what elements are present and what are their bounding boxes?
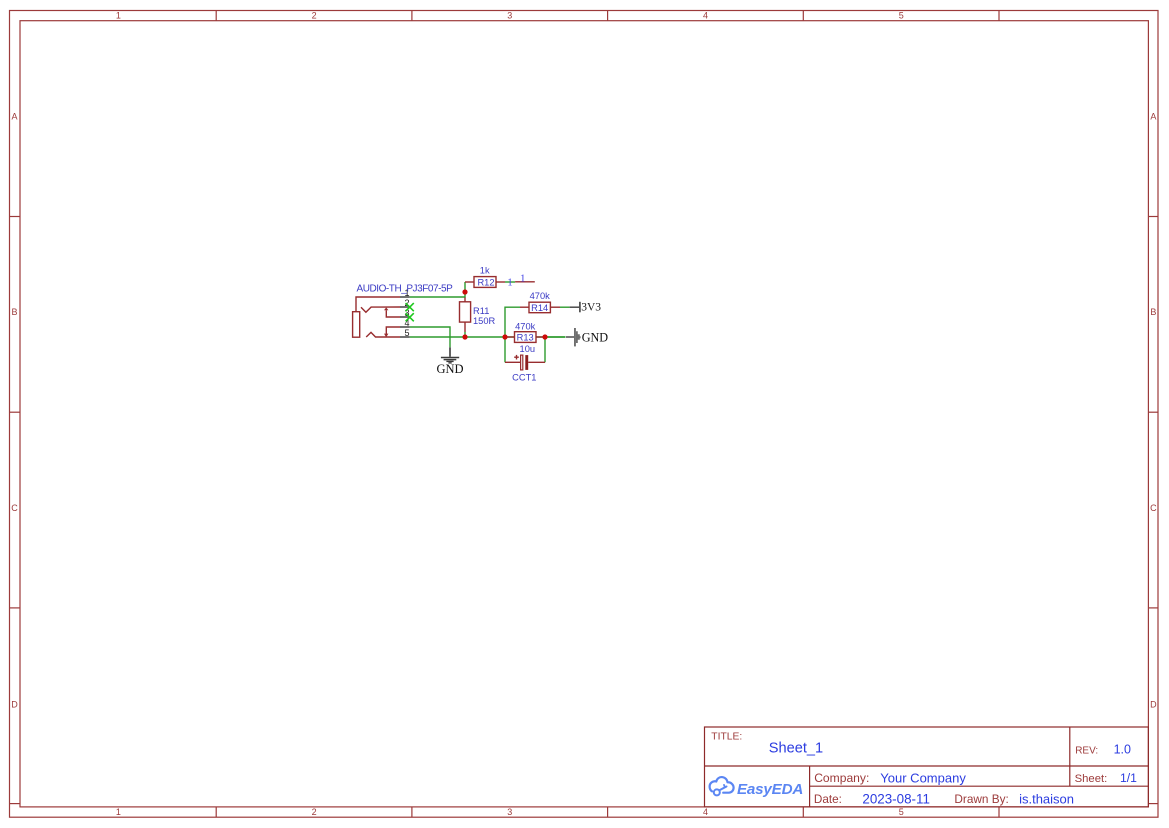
- svg-text:1/1: 1/1: [1120, 771, 1137, 785]
- svg-text:B: B: [1150, 307, 1156, 317]
- svg-text:C: C: [1150, 503, 1157, 513]
- svg-text:3: 3: [507, 11, 512, 21]
- resistor R11: [460, 297, 496, 332]
- svg-text:EasyEDA: EasyEDA: [737, 781, 803, 798]
- no-connect flag pin 2: [406, 303, 414, 311]
- svg-text:3: 3: [507, 807, 512, 817]
- svg-text:5: 5: [404, 328, 409, 338]
- svg-text:470k: 470k: [515, 321, 536, 331]
- svg-text:Date:: Date:: [814, 793, 842, 806]
- ground flag GND (right): [566, 328, 608, 346]
- svg-text:470k: 470k: [530, 291, 551, 301]
- svg-text:D: D: [1150, 700, 1157, 710]
- svg-text:B: B: [11, 307, 17, 317]
- wire junction to R14: [505, 307, 520, 337]
- wire R11 bottom: [464, 332, 466, 337]
- svg-text:GND: GND: [436, 362, 463, 376]
- svg-text:3V3: 3V3: [581, 301, 601, 313]
- svg-text:2: 2: [312, 807, 317, 817]
- svg-text:GND: GND: [582, 330, 609, 344]
- svg-text:1: 1: [507, 277, 513, 289]
- resistor R13: [505, 321, 545, 342]
- svg-text:4: 4: [703, 807, 708, 817]
- connector J1 AUDIO-TH_PJ3F07-5P: [353, 283, 453, 338]
- svg-text:1: 1: [116, 807, 121, 817]
- junction node at R13 left: [502, 334, 507, 339]
- svg-text:TITLE:: TITLE:: [711, 732, 742, 743]
- svg-text:R11: R11: [473, 306, 489, 316]
- svg-text:R14: R14: [531, 303, 548, 313]
- capacitor CCT1: [505, 344, 545, 383]
- svg-text:1: 1: [116, 11, 121, 21]
- svg-text:Sheet_1: Sheet_1: [769, 740, 823, 756]
- svg-text:REV:: REV:: [1075, 745, 1098, 756]
- svg-text:4: 4: [703, 11, 708, 21]
- svg-text:R13: R13: [517, 333, 534, 343]
- wire cap right branch: [544, 337, 546, 362]
- svg-text:D: D: [11, 700, 18, 710]
- resistor R12: [465, 266, 505, 288]
- svg-text:Your Company: Your Company: [880, 770, 966, 785]
- svg-text:Company:: Company:: [814, 771, 869, 785]
- svg-text:Drawn By:: Drawn By:: [954, 792, 1008, 806]
- no-connect flag pin 3: [406, 313, 414, 321]
- junction node at R11 bottom: [462, 334, 467, 339]
- wire pin5 net horizontal: [410, 336, 566, 338]
- svg-text:2: 2: [312, 11, 317, 21]
- svg-text:2023-08-11: 2023-08-11: [862, 791, 930, 806]
- svg-text:A: A: [11, 112, 17, 122]
- net port lead (net 1): [515, 281, 535, 283]
- svg-text:1: 1: [520, 272, 526, 284]
- svg-text:CCT1: CCT1: [512, 373, 536, 383]
- wire R14 to 3V3 flag: [560, 306, 570, 308]
- junction node at R13 right: [542, 334, 547, 339]
- svg-text:1.0: 1.0: [1114, 742, 1131, 756]
- svg-text:is.thaison: is.thaison: [1019, 791, 1074, 806]
- wire pin1 to R12/R11 node: [410, 282, 465, 297]
- power flag 3V3: [570, 301, 602, 313]
- svg-text:150R: 150R: [473, 316, 496, 326]
- wire R13 right to GND flag: [545, 336, 565, 338]
- junction node at R11 top: [462, 289, 467, 294]
- wire cap left branch: [504, 337, 506, 362]
- ground GND (earth symbol): [436, 347, 463, 376]
- svg-text:A: A: [1150, 112, 1156, 122]
- svg-text:5: 5: [899, 11, 904, 21]
- svg-text:C: C: [11, 503, 18, 513]
- svg-text:1k: 1k: [480, 266, 490, 276]
- svg-text:AUDIO-TH_PJ3F07-5P: AUDIO-TH_PJ3F07-5P: [357, 283, 454, 294]
- svg-text:Sheet:: Sheet:: [1075, 773, 1108, 785]
- resistor R14: [520, 291, 560, 313]
- svg-text:5: 5: [899, 807, 904, 817]
- wire pin4 to ground: [410, 327, 450, 347]
- svg-text:R12: R12: [477, 278, 494, 288]
- svg-text:10u: 10u: [520, 344, 536, 354]
- wire R12 right to net 1: [505, 281, 515, 283]
